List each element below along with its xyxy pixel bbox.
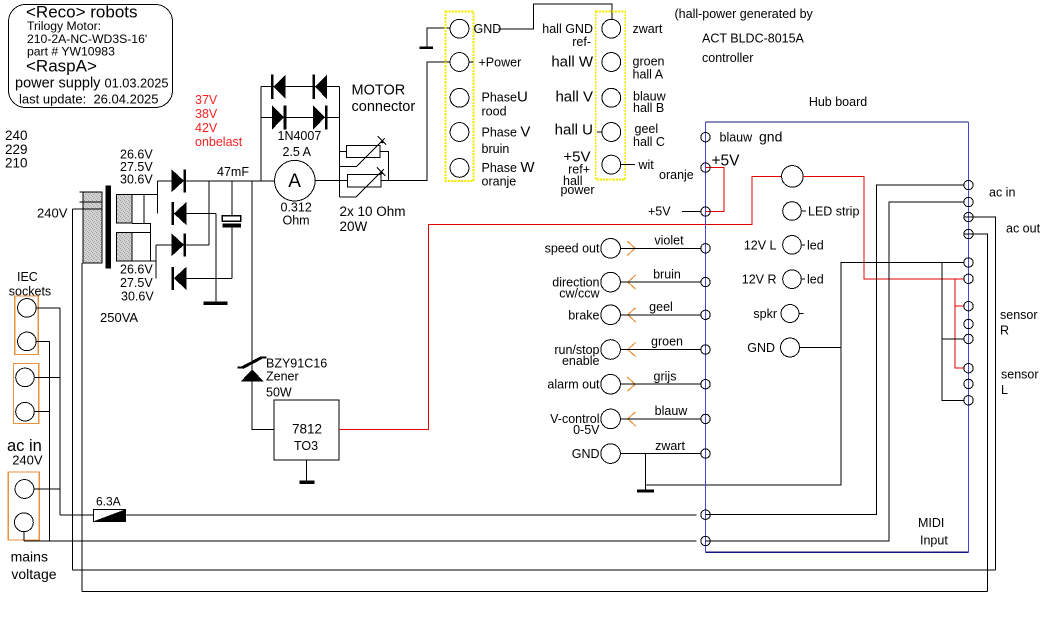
wire AC node upper	[156, 181, 158, 214]
svg-text:brake: brake	[568, 309, 599, 323]
wire hub ac out upper	[964, 217, 996, 570]
transformer T1 primary winding	[73, 192, 103, 263]
ground bridge negative	[204, 214, 228, 305]
wire AC node lower	[155, 245, 157, 278]
wire red hub +5V distribution	[803, 176, 964, 278]
zener diode D9 BZY91C16	[238, 358, 274, 430]
wire +5V stub	[682, 211, 701, 213]
wire line vertical to fuse	[59, 308, 61, 515]
svg-text:bruin: bruin	[482, 142, 510, 156]
svg-text:MIDI: MIDI	[918, 516, 944, 530]
svg-text:onbelast: onbelast	[195, 135, 243, 149]
wire primary tap to bus	[72, 209, 74, 570]
connector J3 mains inlet	[8, 472, 39, 540]
svg-text:voltage: voltage	[11, 566, 56, 582]
svg-text:blauw: blauw	[720, 131, 754, 145]
wire center link lower	[150, 232, 152, 260]
wire red sensor supply L	[955, 306, 964, 368]
node LED strip	[783, 202, 860, 221]
svg-text:led: led	[807, 273, 824, 287]
svg-text:GND: GND	[572, 447, 600, 461]
wire fuse to hub pin	[126, 514, 697, 516]
wire mains inlet live	[34, 488, 60, 490]
diode D5 1N4007	[272, 75, 285, 99]
svg-text:groen: groen	[633, 55, 665, 69]
svg-text:connector: connector	[352, 99, 416, 115]
label ac in 240V	[7, 437, 43, 468]
svg-text:hall U: hall U	[555, 122, 593, 139]
svg-text:0.312: 0.312	[281, 201, 312, 215]
node V-control 0-5V	[550, 404, 701, 437]
svg-text:ac out: ac out	[1006, 222, 1041, 236]
label 2x 10 Ohm 20W	[340, 204, 406, 234]
wire rail to zener	[251, 181, 253, 359]
svg-text:gnd: gnd	[759, 129, 782, 145]
svg-text:sensor: sensor	[1001, 368, 1039, 382]
svg-text:Ohm: Ohm	[283, 214, 310, 228]
svg-text:oranje: oranje	[482, 175, 517, 189]
hub board outline	[706, 122, 969, 552]
svg-text:+5V: +5V	[648, 205, 671, 219]
svg-text:GND: GND	[747, 341, 775, 355]
svg-text:cw/ccw: cw/ccw	[559, 287, 600, 301]
label hall connector right wire colours	[633, 22, 694, 182]
svg-text:2.5 A: 2.5 A	[283, 145, 312, 159]
ground motor GND	[420, 28, 451, 49]
diode D4 bridge bottom	[173, 267, 232, 290]
wire bus upper	[73, 569, 996, 571]
connector J2 IEC socket lower	[14, 364, 39, 424]
svg-text:(hall-power generated by: (hall-power generated by	[675, 7, 814, 21]
diode D2 bridge	[173, 202, 216, 225]
label MIDI Input	[918, 516, 948, 548]
wire red +5V pin bracket	[706, 168, 724, 212]
wire hub ac in lower	[706, 202, 964, 541]
svg-text:zwart: zwart	[655, 439, 685, 453]
svg-text:Phase W: Phase W	[482, 159, 536, 176]
node GND controller	[572, 439, 701, 464]
wire socket J2 neutral	[34, 411, 49, 413]
svg-text:spkr: spkr	[753, 307, 777, 321]
wire socket J2 line	[34, 376, 60, 378]
svg-text:geel: geel	[649, 300, 673, 314]
svg-text:2x 10 Ohm: 2x 10 Ohm	[340, 204, 406, 219]
svg-text:LED strip: LED strip	[808, 205, 859, 219]
wire diode array row2	[261, 116, 340, 118]
wire hub ac in upper	[706, 185, 964, 515]
svg-text:GND: GND	[474, 22, 502, 36]
label sensor R	[1000, 308, 1038, 338]
svg-text:210: 210	[5, 156, 28, 171]
svg-text:IEC: IEC	[17, 270, 38, 284]
wire red sensor supply	[955, 279, 964, 306]
svg-text:ac in: ac in	[989, 186, 1015, 200]
node 12V R led	[742, 270, 824, 289]
svg-text:blauw: blauw	[655, 404, 689, 418]
svg-text:Zener: Zener	[266, 370, 299, 384]
value label 37V 38V 42V onbelast (red)	[195, 93, 243, 149]
wire wit stub	[621, 164, 636, 166]
svg-text:alarm out: alarm out	[547, 378, 600, 392]
node run/stop enable	[554, 335, 701, 369]
regulator U1 7812 TO3	[274, 400, 339, 460]
svg-text:R: R	[1000, 324, 1009, 338]
ammeter A1	[275, 160, 316, 201]
wire hub ac out lower	[964, 234, 988, 591]
svg-text:240: 240	[5, 128, 28, 143]
transformer T1 core	[105, 186, 111, 269]
svg-text:mains: mains	[11, 549, 48, 565]
svg-text:violet: violet	[654, 234, 684, 248]
label MOTOR connector	[352, 83, 416, 116]
svg-text:power supply 01.03.2025: power supply 01.03.2025	[15, 76, 169, 92]
svg-text:MOTOR: MOTOR	[352, 83, 406, 99]
wire motor GND to hall GND	[498, 4, 612, 29]
label mains voltage	[11, 549, 57, 583]
node 12V L led	[744, 236, 824, 255]
node brake	[568, 300, 701, 325]
svg-text:27.5V: 27.5V	[120, 276, 153, 290]
node alarm out	[547, 370, 701, 395]
label hall power note	[675, 7, 814, 65]
svg-text:Trilogy Motor:: Trilogy Motor:	[27, 19, 101, 33]
node speed out	[545, 234, 701, 259]
capacitor C1 47mF	[222, 181, 241, 278]
wire ammeter output	[315, 180, 348, 182]
svg-text:groen: groen	[651, 335, 683, 349]
svg-text:power: power	[560, 183, 594, 197]
wire neutral vertical to mains bus	[49, 341, 51, 541]
svg-text:240V: 240V	[12, 453, 43, 468]
svg-text:oranje: oranje	[659, 168, 694, 182]
svg-text:zwart: zwart	[633, 22, 663, 36]
svg-text:42V: 42V	[195, 121, 218, 135]
wire diode array left leg	[260, 87, 262, 181]
svg-text:ACT BLDC-8015A: ACT BLDC-8015A	[702, 32, 805, 46]
svg-text:TO3: TO3	[294, 439, 318, 453]
wire bus lower	[82, 590, 988, 592]
transformer T1 secondary winding lower	[116, 232, 132, 261]
svg-text:+5V: +5V	[712, 153, 741, 170]
svg-text:0-5V: 0-5V	[573, 423, 600, 437]
svg-text:Hub board: Hub board	[809, 95, 867, 109]
connector J5 hall	[596, 12, 626, 180]
svg-text:PhaseU: PhaseU	[482, 89, 528, 106]
wire secondary upper top tap	[132, 193, 157, 195]
svg-text:12V R: 12V R	[742, 273, 777, 287]
svg-text:30.6V: 30.6V	[120, 173, 153, 187]
svg-text:controller: controller	[702, 51, 753, 65]
svg-text:20W: 20W	[340, 219, 368, 234]
svg-text:1N4007: 1N4007	[278, 129, 322, 143]
svg-text:6.3A: 6.3A	[96, 495, 121, 509]
svg-text:enable: enable	[562, 354, 600, 368]
wire sensor ground chain lower	[942, 339, 964, 400]
node direction cw/ccw	[552, 268, 701, 301]
wire hub sensor common	[841, 263, 964, 348]
svg-text:BZY91C16: BZY91C16	[266, 357, 327, 371]
wire diode array right leg	[338, 87, 340, 198]
wire socket J1 neutral	[36, 340, 49, 342]
svg-text:hall A: hall A	[633, 68, 664, 82]
svg-text:240V: 240V	[37, 206, 68, 221]
wire diode array row1	[261, 86, 340, 88]
node hub GND	[747, 338, 799, 357]
ground regulator	[299, 460, 314, 484]
svg-text:A: A	[288, 171, 301, 192]
wire mains neutral to hub pin	[24, 540, 696, 542]
fuse F1 6.3A	[60, 509, 126, 521]
transformer T1 secondary winding upper	[116, 194, 132, 223]
svg-text:hall W: hall W	[551, 54, 594, 71]
wire socket J1 line	[36, 307, 60, 309]
svg-text:geel: geel	[635, 122, 659, 136]
label 1N4007 2.5 A	[278, 129, 322, 159]
label sensor L	[1001, 368, 1039, 398]
svg-text:rood: rood	[482, 105, 507, 119]
title box	[9, 3, 173, 108]
connector J4 MOTOR	[446, 12, 474, 182]
wire controller ground to hub GND	[645, 348, 841, 486]
svg-text:hall B: hall B	[633, 101, 664, 115]
svg-text:50W: 50W	[266, 386, 292, 400]
wire sensor ground chain	[942, 263, 964, 339]
wire secondary lower bottom tap	[132, 260, 156, 262]
resistor R2 10 Ohm lower	[339, 62, 450, 197]
label motor connector pins	[474, 22, 536, 189]
resistor R1 10 Ohm upper	[339, 136, 388, 180]
label hall connector left	[542, 22, 594, 197]
svg-text:250VA: 250VA	[100, 310, 138, 325]
wire secondary upper bottom tap	[132, 194, 144, 223]
svg-text:speed out: speed out	[545, 242, 600, 256]
svg-text:Input: Input	[920, 534, 948, 548]
svg-text:26.6V: 26.6V	[120, 263, 153, 277]
svg-text:L: L	[1001, 383, 1008, 397]
node tap labels 240 229 210	[5, 128, 28, 171]
svg-text:wit: wit	[638, 158, 655, 172]
label 0.312 Ohm	[281, 201, 312, 228]
svg-text:+Power: +Power	[479, 56, 522, 70]
diode D7 1N4007	[272, 105, 285, 129]
wire primary bottom to bus	[81, 263, 83, 591]
wire main positive rail	[185, 180, 275, 182]
diode D3 bridge	[156, 233, 209, 256]
svg-text:47mF: 47mF	[217, 165, 249, 179]
pins hub left edge	[701, 133, 710, 546]
svg-text:last update: 26.04.2025: last update: 26.04.2025	[19, 92, 159, 107]
svg-text:grijs: grijs	[654, 370, 677, 384]
ground controller GND	[637, 454, 654, 493]
svg-text:30.6V: 30.6V	[121, 290, 154, 304]
label secondary voltages upper	[120, 148, 153, 187]
label IEC sockets	[9, 270, 51, 299]
svg-text:7812: 7812	[292, 422, 322, 437]
svg-text:sensor: sensor	[1000, 308, 1038, 322]
svg-text:ref-: ref-	[572, 35, 591, 49]
wire center link between windings	[132, 223, 151, 232]
svg-text:led: led	[807, 238, 824, 252]
svg-text:<RaspA>: <RaspA>	[26, 57, 97, 76]
svg-text:37V: 37V	[195, 93, 218, 107]
svg-text:Phase V: Phase V	[482, 124, 531, 141]
label zener	[266, 357, 327, 400]
diode D1 bridge top	[157, 169, 184, 192]
svg-text:hall GND: hall GND	[542, 22, 593, 36]
connector J1 IEC socket upper	[15, 296, 39, 354]
wire positive rail link D1-D3	[208, 181, 210, 245]
svg-text:hall C: hall C	[633, 135, 665, 149]
diode D8 1N4007	[313, 105, 326, 129]
pins hub right edge	[964, 180, 973, 405]
svg-text:12V L: 12V L	[744, 238, 777, 252]
node hub +5V circle	[782, 166, 804, 188]
svg-text:hall V: hall V	[555, 89, 593, 106]
label secondary voltages lower	[120, 263, 154, 304]
svg-text:bruin: bruin	[653, 268, 681, 282]
svg-text:38V: 38V	[195, 107, 218, 121]
diode D6 1N4007	[314, 75, 327, 99]
node spkr	[753, 305, 803, 323]
wire red 7812 output to hub +5V	[339, 176, 782, 429]
wire mains inlet neutral	[23, 532, 25, 541]
